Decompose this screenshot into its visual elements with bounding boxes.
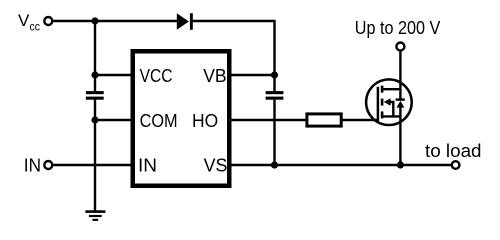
terminal IN xyxy=(44,161,52,169)
Q1 body circle xyxy=(366,79,412,125)
svg-text:cc: cc xyxy=(30,20,41,34)
wire C2 bottom to VS node xyxy=(273,100,275,165)
wire HO pin to resistor (crosses bootstrap wire) xyxy=(230,119,306,121)
svg-text:VS: VS xyxy=(204,156,228,176)
wire C1 bottom down to ground (crosses IN wire) xyxy=(94,100,96,212)
wire drain xyxy=(399,51,401,91)
Q1 body arrow xyxy=(384,98,391,105)
svg-text:IN: IN xyxy=(24,155,41,175)
svg-text:V: V xyxy=(18,11,30,30)
Q1 gate bar xyxy=(377,87,380,121)
Q1 channel dash top xyxy=(381,86,384,93)
wire VS pin to load terminal xyxy=(230,164,452,166)
wire Vcc terminal to diode anode xyxy=(52,20,177,22)
junction node VCC pin xyxy=(91,71,98,78)
junction node VS xyxy=(271,161,278,168)
wire resistor to gate xyxy=(343,119,379,121)
svg-text:HO: HO xyxy=(192,111,218,131)
svg-text:VCC: VCC xyxy=(140,66,173,86)
resistor R1 (gate) xyxy=(307,114,341,126)
wire VB pin to bootstrap node xyxy=(230,74,275,76)
svg-text:VB: VB xyxy=(203,66,226,86)
transistor Q1 (N-MOSFET) xyxy=(366,79,412,125)
wire source to VS node xyxy=(399,116,401,165)
svg-text:to load: to load xyxy=(425,141,482,161)
junction node COM pin xyxy=(91,116,98,123)
wire COM pin xyxy=(95,119,132,121)
svg-text:COM: COM xyxy=(140,111,178,131)
wire Vcc junction down to C1 top xyxy=(94,21,96,91)
Q1 body diode xyxy=(399,89,401,100)
wire VCC pin xyxy=(95,74,132,76)
diode D1 (bootstrap) xyxy=(177,13,193,30)
terminal to load xyxy=(452,161,460,169)
Q1 channel dash middle xyxy=(381,99,384,106)
wire IN terminal to IN pin (crosses ground wire) xyxy=(52,164,132,166)
capacitor C1 (VCC decoupling) xyxy=(86,91,104,100)
svg-text:IN: IN xyxy=(138,156,157,176)
junction node source/VS xyxy=(397,161,404,168)
Q1 channel dash bottom xyxy=(381,111,384,118)
Q1 drain bar xyxy=(382,88,400,90)
terminal Vcc xyxy=(44,17,52,25)
Q1 source bar xyxy=(382,115,400,117)
ground xyxy=(85,210,105,221)
junction node VB xyxy=(271,71,278,78)
junction node Vcc/bootstrap xyxy=(91,17,98,24)
terminal 200V xyxy=(396,43,404,51)
capacitor C2 (bootstrap) xyxy=(266,91,284,100)
svg-text:Up to 200 V: Up to 200 V xyxy=(355,18,441,38)
wire diode cathode to VB node corner xyxy=(192,21,275,91)
gate driver IC U1 xyxy=(133,51,230,186)
